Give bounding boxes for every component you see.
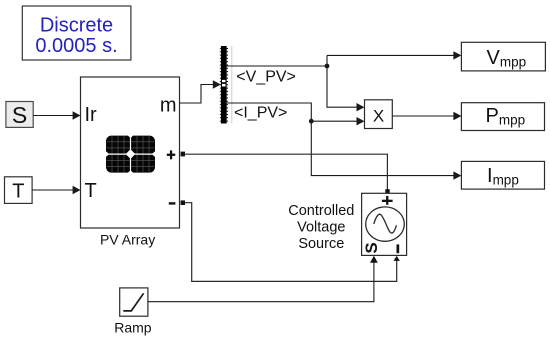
- svg-text:<I_PV>: <I_PV>: [234, 105, 287, 122]
- wire m output to Bus Selector: [180, 80, 221, 103]
- svg-text:T: T: [12, 181, 24, 203]
- block PV Array U1: [81, 77, 180, 228]
- block Impp display: [461, 161, 544, 189]
- block Pmpp display: [461, 103, 544, 131]
- pin label + (top): [382, 196, 393, 205]
- block T (temperature input): [5, 177, 33, 204]
- svg-text:Voltage: Voltage: [297, 220, 345, 236]
- wire PV Array + output to controlled voltage source: [181, 152, 390, 194]
- svg-text:0.0005 s.: 0.0005 s.: [35, 35, 117, 57]
- block Controlled Voltage Source: [362, 193, 407, 255]
- pin label -: [169, 202, 176, 204]
- block S (irradiance input): [6, 102, 33, 129]
- wire V_PV branch to product top input: [327, 66, 365, 111]
- wire I_PV branch to Impp display: [311, 121, 461, 180]
- svg-text:S: S: [12, 102, 27, 128]
- svg-text:Ramp: Ramp: [114, 320, 152, 336]
- svg-text:PV Array: PV Array: [100, 231, 155, 247]
- svg-text:S: S: [362, 242, 381, 253]
- block product X: [365, 100, 393, 129]
- svg-text:Ir: Ir: [85, 104, 98, 126]
- svg-text:T: T: [85, 180, 97, 202]
- block Ramp: [120, 288, 148, 316]
- pin label +: [167, 150, 176, 159]
- pin label - (rotated, bottom right): [397, 244, 400, 253]
- svg-text:m: m: [160, 94, 177, 116]
- sine wave: [374, 214, 397, 233]
- bus selector bar: [220, 46, 232, 124]
- wire bus selector V_PV output: [227, 51, 462, 66]
- svg-text:Discrete: Discrete: [40, 14, 113, 36]
- svg-text:Controlled: Controlled: [288, 203, 354, 219]
- AC source circle: [366, 207, 405, 241]
- wire Ramp to controlled voltage source s input: [148, 256, 378, 302]
- svg-text:<V_PV>: <V_PV>: [236, 69, 296, 86]
- block Vmpp display: [461, 42, 545, 71]
- wire product output to Pmpp display: [392, 112, 461, 120]
- junction V_PV node: [325, 64, 330, 69]
- wire PV Array - output to controlled voltage source: [181, 200, 400, 281]
- wire S to PV Array Ir input: [33, 111, 80, 119]
- wire T to PV Array T input: [32, 186, 80, 194]
- svg-text:Source: Source: [298, 236, 344, 252]
- junction I_PV node: [309, 119, 314, 124]
- wire bus selector I_PV output: [227, 103, 365, 125]
- block Discrete solver annotation: [22, 6, 131, 60]
- solar panel icon: [106, 135, 156, 173]
- svg-text:X: X: [373, 107, 384, 126]
